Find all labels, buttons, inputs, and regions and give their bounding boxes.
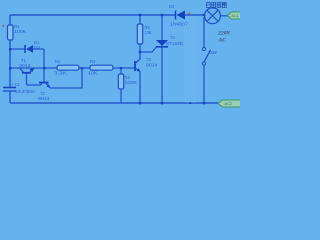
- terminal AC2: [218, 100, 241, 107]
- svg-text:220V: 220V: [217, 31, 232, 37]
- wire bottom rail: [10, 102, 218, 104]
- svg-text:AC2: AC2: [225, 102, 232, 106]
- svg-text:*: *: [2, 25, 5, 32]
- node small: [189, 102, 191, 104]
- svg-text:24V: 24V: [33, 45, 41, 50]
- wire D1 anode down: [43, 49, 45, 68]
- red tick: [188, 13, 190, 16]
- resistor R3: [88, 59, 113, 76]
- diode D2: [169, 4, 204, 27]
- svg-text:R3: R3: [90, 59, 96, 64]
- node D1/T2 base: [43, 67, 45, 69]
- wire top rail: [10, 14, 175, 16]
- node T3 emitter bottom: [139, 102, 141, 104]
- diode D1: [25, 40, 44, 53]
- svg-text:10K: 10K: [88, 71, 98, 76]
- node gate junction: [139, 51, 141, 53]
- svg-text:R2: R2: [55, 59, 61, 64]
- svg-text:+ C1: + C1: [11, 82, 21, 87]
- svg-text:T3: T3: [146, 57, 152, 62]
- light band: [184, 16, 196, 103]
- resistor R1: [8, 24, 27, 40]
- svg-text:9013: 9013: [19, 63, 31, 68]
- wire D1 row: [10, 48, 25, 50]
- transistor T3: [135, 57, 158, 72]
- wire T3 emitter down: [139, 72, 141, 103]
- node T4 cathode bottom: [161, 102, 163, 104]
- wire left rail upper: [9, 15, 11, 25]
- wire gate: [140, 47, 157, 52]
- wire left rail lower: [9, 91, 11, 103]
- transistor T1: [19, 58, 34, 85]
- svg-text:AC: AC: [218, 38, 227, 44]
- terminal AC1: [228, 12, 242, 19]
- svg-text:10K: 10K: [145, 30, 153, 35]
- svg-text:9014: 9014: [38, 96, 50, 101]
- lamp: [205, 8, 229, 24]
- node on left rail at D1: [9, 48, 11, 50]
- node R2/R3 junction: [81, 67, 83, 69]
- lamp label 白炽灯泡: [207, 2, 227, 7]
- svg-text:100K: 100K: [125, 80, 138, 85]
- wire T2 emitter: [50, 68, 82, 88]
- svg-text:9014: 9014: [146, 63, 158, 68]
- thyristor T4: [156, 15, 183, 103]
- resistor R2: [54, 59, 79, 76]
- svg-text:SW: SW: [210, 50, 218, 55]
- svg-text:BT169D: BT169D: [166, 41, 183, 46]
- wire T1 base to T2: [27, 84, 41, 86]
- wire mid row (collector line): [10, 67, 57, 69]
- node lamp left: [203, 14, 205, 16]
- wire T3 collector up: [139, 52, 141, 59]
- node left rail mid: [9, 67, 11, 69]
- node switch bottom: [203, 102, 205, 104]
- wire R2-R3: [79, 67, 90, 69]
- switch S: [202, 17, 217, 103]
- svg-text:D2: D2: [169, 4, 175, 9]
- svg-text:100K: 100K: [14, 29, 26, 34]
- resistor R4: [118, 68, 137, 103]
- capacitor C1: [3, 82, 35, 94]
- svg-text:3.3K: 3.3K: [54, 71, 67, 76]
- svg-text:T4: T4: [170, 35, 176, 40]
- svg-text:1N4007: 1N4007: [170, 22, 189, 27]
- node R4 tap: [120, 67, 122, 69]
- svg-text:AC1: AC1: [232, 14, 239, 18]
- resistor R5: [137, 15, 152, 52]
- wire left rail mid: [9, 40, 11, 87]
- node T4 anode top: [161, 14, 163, 16]
- node R5 top: [139, 14, 141, 16]
- wire R3 to T3 base: [113, 67, 134, 69]
- svg-text:10uF/50V: 10uF/50V: [15, 89, 35, 94]
- transistor T2: [38, 68, 50, 101]
